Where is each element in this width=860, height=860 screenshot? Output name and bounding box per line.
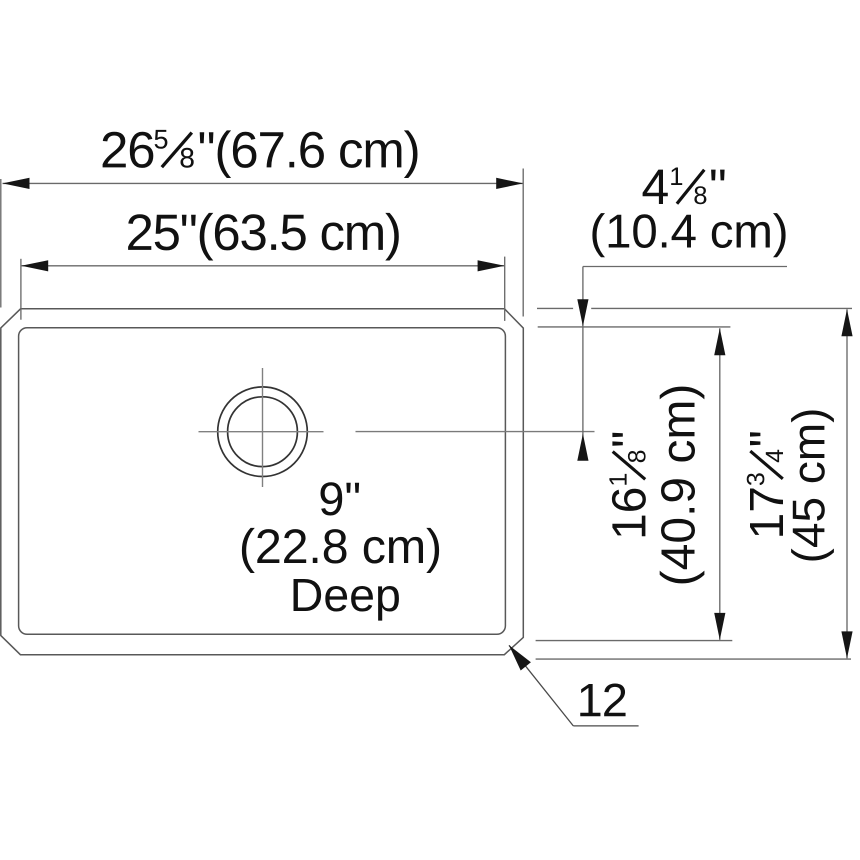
dim 17 3/4 down arrow [841, 631, 852, 658]
text (22.8 cm) [242, 528, 439, 573]
text 4 fraction numerator 1 [671, 168, 682, 186]
dim 4 1/8 up arrow [577, 434, 588, 461]
text (10.4 cm) [592, 213, 785, 257]
label 12 underline [573, 725, 638, 727]
sink inner bowl (rounded rectangle) [19, 328, 506, 635]
extension line right outer [522, 169, 524, 317]
dim 26 5/8 left arrow [3, 178, 30, 189]
text 26 whole number [103, 132, 154, 168]
extension line top inner right [538, 326, 731, 328]
text 25 inch (63.5 cm) [128, 213, 399, 261]
text 26 fraction slash [162, 133, 192, 168]
dim 26 5/8 line [3, 182, 524, 184]
dim 17 3/4 up arrow [841, 309, 852, 336]
dim 26 5/8 right arrow [496, 178, 523, 189]
extension line bottom inner right [536, 640, 733, 642]
rotated text 16 1/8 inch (40.9 cm) [609, 387, 704, 584]
extension line bottom outer right [536, 658, 851, 660]
text 9 inch [320, 482, 359, 515]
text 4 inch mark [711, 170, 725, 181]
rotated text 17 3/4 inch (45 cm) [747, 410, 834, 560]
text 26 fraction numerator 5 [155, 130, 168, 149]
drain outer circle [218, 387, 308, 477]
dim 25 left arrow [21, 260, 48, 271]
extension line right inner [504, 257, 506, 321]
text 4 whole number [643, 170, 668, 204]
drain crosshair horizontal [199, 431, 324, 433]
text Deep [294, 579, 399, 621]
text 4 fraction slash [677, 170, 704, 204]
dim 16 1/8 vertical line [719, 328, 721, 640]
dim 16 1/8 up arrow [714, 328, 725, 355]
text 26 fraction denominator 8 [181, 148, 194, 168]
dim 4 1/8 leader horizontal [583, 266, 787, 268]
text 4 fraction denominator 8 [694, 186, 706, 204]
dim 16 1/8 down arrow [714, 613, 725, 640]
sink outer rim (chamfered rectangle) [1, 309, 524, 655]
drain crosshair vertical [262, 368, 264, 487]
dim 17 3/4 vertical line [846, 309, 848, 658]
text 12 [580, 684, 625, 717]
text inch mark and (67.6 cm) [200, 130, 418, 178]
label 12 leader diagonal [509, 645, 573, 726]
extension line left outer [0, 179, 2, 308]
dim 25 right arrow [478, 260, 505, 271]
extension line top outer right segment 1 [537, 307, 573, 309]
drain inner circle [228, 397, 298, 467]
dim 25 line [21, 265, 504, 267]
label 12 arrowhead [509, 645, 531, 670]
dim 4 1/8 vertical line [582, 267, 584, 461]
dim 4 1/8 down arrow [577, 299, 588, 326]
extension line top outer right segment 2 [591, 307, 852, 309]
extension line left inner [20, 259, 22, 320]
drain centerline extending right [356, 431, 595, 433]
